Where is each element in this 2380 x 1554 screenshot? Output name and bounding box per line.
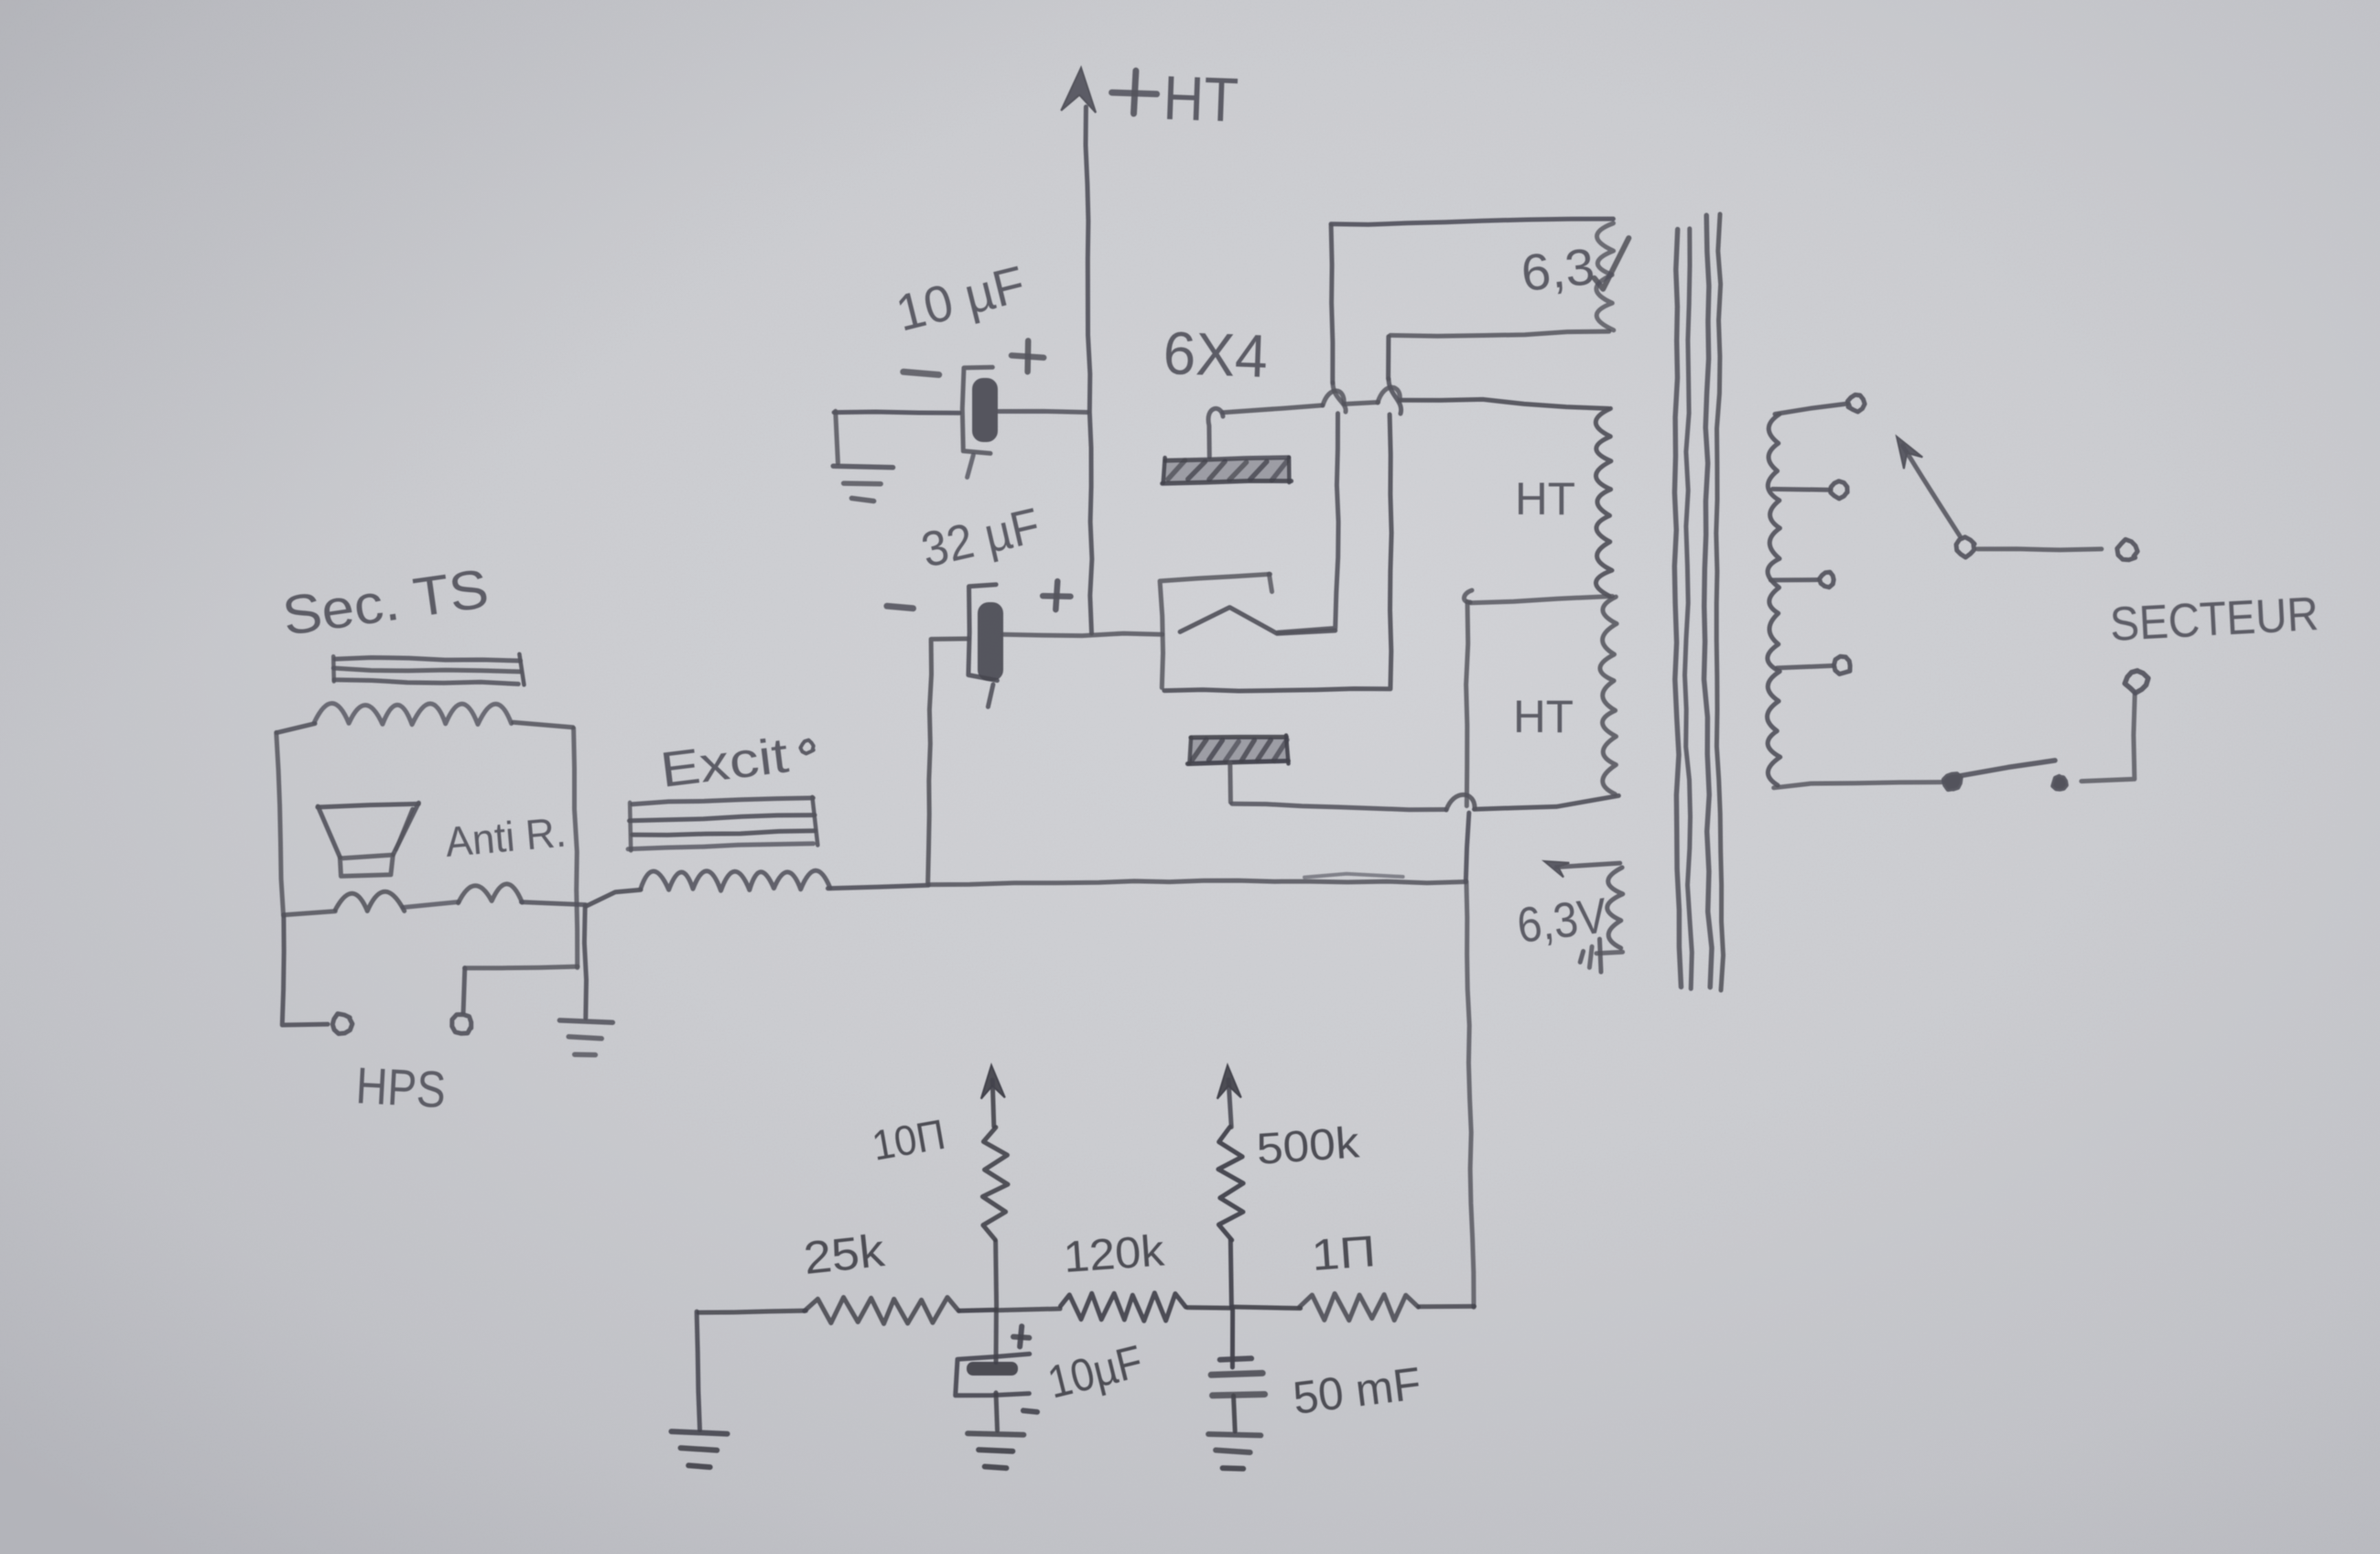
svg-text:500k: 500k — [1255, 1118, 1361, 1174]
svg-text:25k: 25k — [801, 1225, 887, 1284]
svg-text:6,3: 6,3 — [1519, 237, 1597, 302]
svg-text:1Π: 1Π — [1310, 1227, 1378, 1280]
svg-text:6,3V: 6,3V — [1514, 888, 1610, 953]
svg-text:120k: 120k — [1062, 1226, 1166, 1282]
svg-text:HT: HT — [1515, 473, 1575, 524]
svg-text:HT: HT — [1162, 63, 1239, 135]
svg-text:6X4: 6X4 — [1163, 318, 1270, 390]
svg-text:HT: HT — [1513, 691, 1574, 742]
svg-text:HPS: HPS — [354, 1056, 447, 1118]
svg-text:SECTEUR: SECTEUR — [2109, 588, 2320, 652]
